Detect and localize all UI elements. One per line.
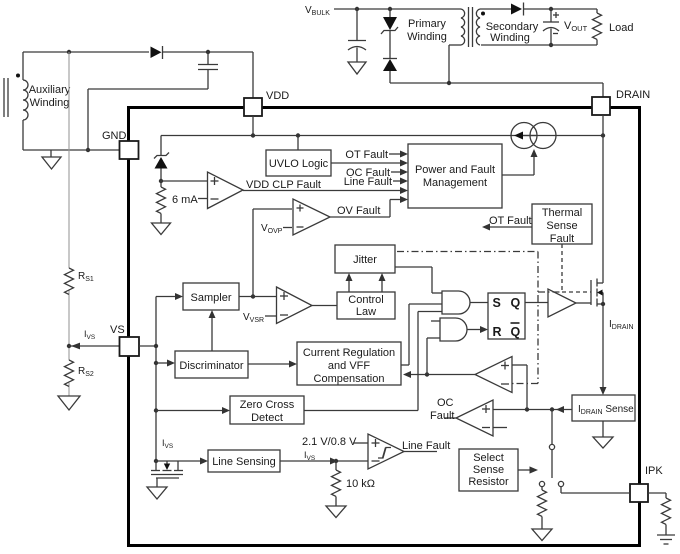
label IVS at resistor [304,450,316,462]
op-amp VDD CLP comparator [208,172,244,209]
label IDRAIN [609,319,634,331]
transformer core [469,7,473,47]
node junction line-sense fet [154,459,158,463]
svg-text:DRAIN: DRAIN [616,89,650,101]
svg-text:Load: Load [609,22,633,34]
resistor external IPK [648,493,671,535]
wire drain node [390,45,603,97]
node junction vdd-rail [251,133,255,137]
wire line fault arrow [393,178,408,185]
wire sampler output [239,296,277,298]
node junction uvlo-tap [296,133,300,137]
resistor 6 mA current source [157,181,166,223]
svg-text:Winding: Winding [490,32,530,44]
node junction sampler-out [251,294,255,298]
node junction gnd-return [86,148,90,152]
op-amp gate driver [548,289,576,317]
op-amp OC fault comparator [456,400,507,436]
label OT Fault output [489,215,532,227]
wire VBULK rail [334,8,461,10]
wire control law to jitter right [379,273,386,292]
label auxiliary winding [29,84,71,109]
svg-text:Q: Q [511,296,521,310]
resistor internal sense [538,487,547,530]
label UVLO Logic [269,158,329,170]
node VBULK label [305,5,330,17]
node junction sense tap [67,50,71,54]
wire IDRAIN sense output [493,406,572,413]
diode VDD rectifier [151,46,254,59]
capacitor VDD [198,52,218,89]
svg-text:Discriminator: Discriminator [179,360,244,372]
svg-text:2.1 V/0.8 V: 2.1 V/0.8 V [302,436,357,448]
wire line fault output [404,451,437,453]
node junction vout-bottom [549,43,553,47]
svg-text:Power and Fault: Power and Fault [415,164,495,176]
wire auxiliary bottom [23,120,119,150]
node junction vdd-cap [206,50,210,54]
svg-text:Fault: Fault [550,233,574,245]
node VOUT label [564,20,588,33]
pin VDD [244,98,262,116]
label VVSR [243,312,277,324]
wire secondary top [480,8,511,10]
svg-text:Fault: Fault [430,410,454,422]
wire discriminator to sampler [209,310,216,351]
ground 6mA [152,223,171,235]
diode zener clamp (TVS) [381,9,398,59]
label power and fault management [415,164,495,189]
ground earth external [657,535,675,544]
block Control Law [337,292,395,319]
ground IDRAIN sense [593,421,613,448]
svg-text:Line Fault: Line Fault [402,440,450,452]
svg-text:Q: Q [511,325,521,339]
pin GND [120,141,139,159]
wire VDD feed [252,52,254,98]
label Line Fault output [402,440,450,452]
wire driver to gate [576,302,591,304]
svg-text:and VFF: and VFF [328,360,370,372]
switch sense selector [539,410,563,487]
label VS [110,324,125,336]
block Discriminator [175,351,248,378]
transformer auxiliary winding coil [23,80,28,120]
wire OC fault arrow [391,169,408,176]
label OT Fault input [345,149,388,161]
wire OC fault output stub [444,417,456,419]
wire line sensing output [280,458,368,465]
svg-text:Select: Select [473,452,504,464]
svg-text:Sampler: Sampler [191,292,232,304]
wire control law to jitter left [346,273,353,292]
block Sampler [183,283,239,310]
node junction primary-return [447,81,451,85]
label VOVP [261,223,292,235]
node junction vout-top [549,7,553,11]
wire drain pin to mosfet [602,115,604,283]
ground RS2 [58,396,80,410]
resistor 10 kOhm [332,461,341,506]
block Line Sensing [208,450,280,472]
label OV Fault [337,205,380,217]
wire to feedback comparator plus [512,365,527,410]
label discriminator [179,360,244,372]
node junction mosfet source [601,302,605,306]
label thermal sense fault [542,207,582,245]
wire internal VDD rail [161,116,603,136]
wire VDD CLP Fault [243,187,408,194]
label IDRAIN sense [578,404,634,416]
wire arrow into IDRAIN sense [600,387,607,395]
svg-text:OV Fault: OV Fault [337,205,380,217]
node junction fb-comp tap [525,407,529,411]
svg-text:Line Sensing: Line Sensing [212,456,276,468]
label line sensing [212,456,276,468]
label primary winding [407,18,447,43]
resistor RS1 [65,268,74,294]
wire sense divider (gray) [68,52,70,396]
wire select to switch arrow [518,466,538,473]
svg-text:Jitter: Jitter [353,254,377,266]
label select sense resistor [468,452,509,488]
block IDRAIN Sense [572,395,635,421]
block Jitter [335,245,395,273]
wire feedback comparator output [403,371,475,378]
wire current regulation to AND1 [401,304,442,365]
transistor power MOSFET [591,279,603,307]
IC boundary box [129,108,640,546]
wire Q to driver [525,302,548,304]
label 10 kOhm [346,478,375,490]
label Q [511,296,521,310]
op-amp feedback comparator [475,357,512,393]
block Current Regulation and VFF Compensation [297,342,401,385]
wire auxiliary top [23,52,149,80]
ground auxiliary [42,150,61,169]
svg-text:Zero Cross: Zero Cross [240,399,295,411]
label DRAIN [616,89,650,101]
op-amp OV comparator [293,199,330,235]
label sampler [191,292,232,304]
node junction clamp [388,7,392,11]
wire to line sensing block [178,458,208,465]
wire AND2 inverted input stub [431,320,440,322]
gate AND2 [440,318,467,341]
label 2.1V/0.8V threshold [302,436,368,448]
transistor line sense FET [151,461,183,487]
svg-text:Winding: Winding [30,97,70,109]
node junction bulk-cap [355,7,359,11]
ground bulk-cap [348,62,366,74]
label GND [102,130,127,142]
wire zero cross output to AND1 [304,312,442,411]
dash-dot jitter modulation box [397,252,562,384]
resistor load [481,9,602,45]
wire PFM to current source [502,149,538,175]
label OC Fault [430,397,454,422]
wire VS to divider with IVS arrow [69,343,119,350]
label OC Fault input [346,167,390,179]
label S [493,296,501,310]
node secondary polarity dot [481,12,485,16]
wire switch to IPK pin [561,487,630,494]
wire to sampler [156,293,183,300]
wire to OV comparator [253,209,292,297]
wire AND1 output to S [470,302,488,304]
node junction vs-rail-1 [154,344,158,348]
wire mosfet source down [602,293,604,390]
diode output rectifier [511,3,597,16]
wire cap return to GND [88,89,208,150]
label IVS divider [84,329,96,341]
label IVS internal [162,438,174,450]
svg-text:Management: Management [423,177,487,189]
node junction drain-rail [601,133,605,137]
svg-text:OC: OC [437,397,454,409]
svg-text:Line Fault: Line Fault [344,176,392,188]
label Line Fault input [344,176,392,188]
svg-text:IPK: IPK [645,465,663,477]
current source symbol [511,123,556,149]
svg-text:VS: VS [110,324,125,336]
wire comparator plus input [161,180,208,182]
label secondary winding [486,21,539,44]
node junction 6mA [159,179,163,183]
label RS1 [78,271,94,283]
wire OT fault arrow [389,151,408,158]
wire UVLO to PFM [331,160,408,167]
node junction VS divider [67,344,71,348]
label VDD CLP Fault [246,179,321,191]
svg-text:10 kΩ: 10 kΩ [346,478,375,490]
wire OT Fault output arrow [482,224,532,231]
node junction 10k [334,459,338,463]
diode clamp blocking [383,59,397,84]
svg-text:Auxiliary: Auxiliary [29,84,71,96]
ground line sense FET [147,487,167,499]
label current regulation [303,347,395,385]
svg-text:6 mA: 6 mA [172,194,198,206]
resistor RS2 [65,360,74,386]
pin IPK [630,484,648,502]
block Select Sense Resistor [459,449,518,491]
svg-text:Law: Law [356,306,376,318]
svg-text:Compensation: Compensation [314,373,385,385]
svg-text:Thermal: Thermal [542,207,582,219]
svg-text:Sense: Sense [546,220,577,232]
transformer secondary winding coil [476,9,480,45]
transformer primary winding coil [461,9,465,45]
wire AND2 output to R [467,326,488,333]
capacitor bulk [348,9,366,62]
svg-text:Resistor: Resistor [468,476,509,488]
label RS2 [78,366,94,378]
block Zero Cross Detect [230,396,304,424]
svg-text:Primary: Primary [408,18,446,30]
op-amp line fault hysteresis comparator [368,434,404,469]
wire to AND2 input [427,338,440,375]
block UVLO Logic [266,136,331,177]
label load [609,22,633,34]
node junction switch tap [550,407,554,411]
svg-text:OT Fault: OT Fault [489,215,532,227]
label VDD [266,90,289,102]
label 6 mA [172,194,208,206]
wire VS internal rail [139,297,156,462]
svg-text:VDD: VDD [266,90,289,102]
ground 10k [326,506,346,518]
wire OV Fault [330,196,408,217]
ground internal sense resistor [532,529,552,541]
wire discriminator output [248,361,297,368]
pin VS [120,337,140,356]
wire thermal dashed to driver [562,244,591,292]
block SR latch [488,293,525,339]
node junction vs-rail-2 [154,361,158,365]
svg-text:S: S [493,296,501,310]
diode zener VDD clamp [154,136,169,182]
svg-text:GND: GND [102,130,127,142]
gate AND1 [442,291,470,314]
svg-text:VDD CLP Fault: VDD CLP Fault [246,179,321,191]
block Power and Fault Management [408,144,502,208]
pin DRAIN [592,97,610,115]
label control law [348,294,383,318]
svg-text:OT Fault: OT Fault [345,149,388,161]
wire jitter to AND1 [395,267,442,293]
op-amp VSR comparator [277,287,313,324]
node junction AND2 tap [425,372,429,376]
svg-text:Control: Control [348,294,383,306]
svg-text:Detect: Detect [251,412,283,424]
capacitor output [543,9,559,45]
label Qbar [511,323,521,339]
wire to zero cross detect [156,407,230,414]
label IPK [645,465,663,477]
svg-text:Winding: Winding [407,31,447,43]
label R [493,325,502,339]
svg-text:Sense: Sense [473,464,504,476]
node auxiliary polarity dot [16,74,20,78]
wire VSR to control law [312,305,337,307]
node junction vs-rail-3 [154,408,158,412]
svg-text:UVLO Logic: UVLO Logic [269,158,329,170]
svg-text:R: R [493,325,502,339]
label zero cross detect [240,399,295,424]
svg-text:Current Regulation: Current Regulation [303,347,395,359]
wire to discriminator [156,360,175,367]
transformer auxiliary core [4,78,8,117]
block Thermal Sense Fault [532,204,592,244]
label jitter [353,254,377,266]
